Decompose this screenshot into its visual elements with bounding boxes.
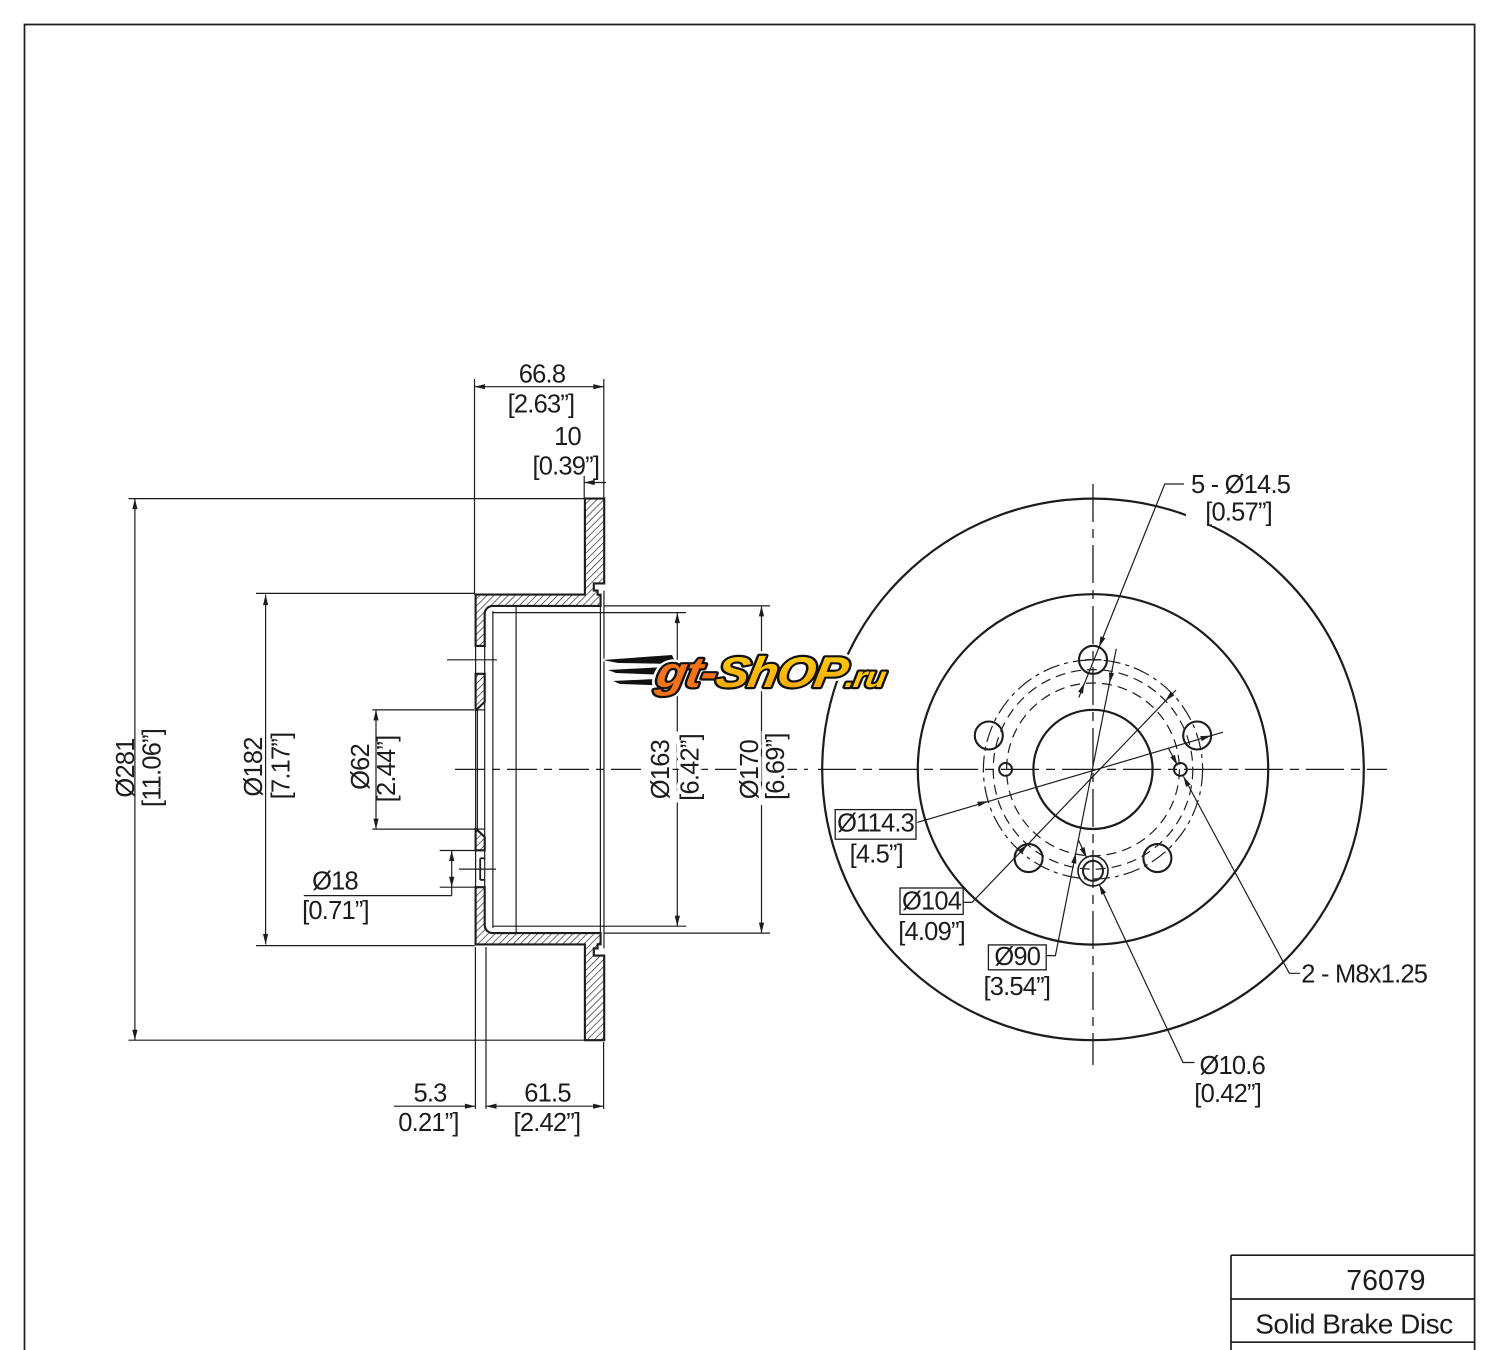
svg-text:Ø10.6: Ø10.6 — [1200, 1052, 1266, 1080]
locating hole D10.6 outer — [1078, 856, 1108, 886]
lug hole centerline tick — [447, 659, 497, 661]
speed streaks — [603, 655, 680, 686]
circle D104 dashed — [993, 670, 1193, 870]
hub hole chamfer silhouette — [476, 710, 478, 829]
svg-text:[11.06”]: [11.06”] — [139, 729, 167, 807]
bolt circle D114.3 dash-dot — [983, 660, 1202, 879]
wall faces through holes — [475, 646, 477, 945]
svg-text:5 - Ø14.5: 5 - Ø14.5 — [1191, 471, 1291, 499]
svg-text:[2.44”]: [2.44”] — [373, 736, 401, 803]
label 2-M8x1.25 — [1300, 958, 1424, 986]
circle D90 dashed — [1007, 683, 1180, 856]
centerline vertical — [1092, 484, 1094, 1065]
lug hole 18 — [1183, 722, 1211, 750]
svg-text:[2.63”]: [2.63”] — [508, 391, 575, 419]
svg-text:61.5: 61.5 — [524, 1080, 571, 1108]
D170 extension lines — [605, 605, 771, 607]
svg-text:Ø90: Ø90 — [994, 943, 1040, 971]
svg-text:2 - M8x1.25: 2 - M8x1.25 — [1301, 961, 1427, 989]
M8 hole right — [1174, 763, 1187, 776]
small hole counterbore step — [480, 858, 485, 880]
label D114.3 boxed — [835, 810, 916, 840]
svg-text:Ø114.3: Ø114.3 — [837, 810, 915, 838]
extension lines — [129, 379, 604, 1109]
interior thin lines — [476, 591, 770, 949]
flange boss silhouette — [515, 606, 517, 933]
svg-text:[0.57”]: [0.57”] — [1205, 499, 1272, 527]
centerline of section — [455, 768, 808, 770]
svg-text:5.3: 5.3 — [413, 1080, 447, 1108]
table row lines — [1231, 1254, 1475, 1256]
svg-text:76079: 76079 — [1346, 1265, 1425, 1297]
label D104 boxed — [900, 888, 963, 914]
wall segment between hub hole and small hole — [476, 829, 485, 850]
svg-text:Solid Brake Disc: Solid Brake Disc — [1255, 1309, 1453, 1340]
lug hole 234 — [1015, 844, 1043, 872]
svg-text:[2.42”]: [2.42”] — [514, 1109, 581, 1137]
drum lip silhouettes — [599, 606, 601, 933]
svg-text:[7.17”]: [7.17”] — [268, 733, 296, 800]
svg-text:[0.42”]: [0.42”] — [1194, 1080, 1261, 1108]
svg-text:[0.39”]: [0.39”] — [532, 453, 599, 481]
lug hole 162 — [975, 722, 1003, 750]
svg-text:[0.71”]: [0.71”] — [302, 897, 369, 925]
outer circle D281 — [822, 499, 1364, 1041]
small hole centerline tick — [459, 868, 496, 870]
table left edge — [1230, 1255, 1232, 1350]
locating hole D10.6 inner — [1083, 861, 1103, 881]
label 5-D14.5 — [1186, 468, 1290, 526]
leader 2-M8x1.25 — [1183, 776, 1301, 973]
svg-text:[4.5”]: [4.5”] — [850, 840, 903, 868]
svg-text:Ø182: Ø182 — [240, 737, 268, 796]
dimension lines — [135, 387, 762, 1106]
svg-text:[3.54”]: [3.54”] — [983, 973, 1050, 1001]
svg-text:0.21”]: 0.21”] — [398, 1109, 458, 1137]
leader D114.3 — [917, 732, 1223, 822]
section hatch: lower wall+bottom plate+band — [476, 887, 605, 1040]
hub hole edges across wall — [476, 709, 485, 711]
centerline horizontal — [818, 768, 1387, 770]
drum bore edges (D163) — [493, 612, 686, 614]
leader D10.6 — [1099, 884, 1194, 1062]
lug hole 306 — [1143, 844, 1171, 872]
label D90 boxed — [988, 945, 1046, 970]
svg-text:10: 10 — [554, 423, 581, 451]
svg-text:[6.42”]: [6.42”] — [677, 734, 705, 801]
svg-text:[4.09”]: [4.09”] — [898, 918, 965, 946]
leader D104 — [963, 690, 1176, 902]
wall segment between lug hole and hub hole — [476, 674, 485, 710]
leader 5-D14.5 — [1079, 484, 1184, 698]
inner circle D182 — [918, 594, 1268, 944]
top lug hole tick — [1085, 659, 1102, 661]
M8 hole left — [999, 763, 1012, 776]
leader D90 — [1047, 649, 1117, 956]
dimension arrowheads — [132, 384, 764, 1109]
svg-text:Ø163: Ø163 — [647, 739, 675, 799]
svg-text:66.8: 66.8 — [519, 361, 566, 389]
svg-text:Ø281: Ø281 — [112, 738, 140, 797]
hat fillet silhouette — [492, 611, 494, 928]
dimension texts rotated — [112, 729, 790, 807]
section hatch: band+top plate+upper wall — [476, 499, 605, 646]
svg-text:Ø62: Ø62 — [347, 744, 375, 790]
lug hole top — [1079, 646, 1107, 674]
svg-text:Ø104: Ø104 — [902, 887, 962, 915]
label D10.6 — [1196, 1050, 1268, 1106]
svg-text:Ø170: Ø170 — [736, 739, 764, 799]
dimension texts horizontal — [302, 361, 599, 1137]
svg-text:Ø18: Ø18 — [312, 868, 358, 896]
svg-text:[6.69”]: [6.69”] — [762, 733, 790, 800]
hub hole D62 — [1033, 710, 1152, 829]
